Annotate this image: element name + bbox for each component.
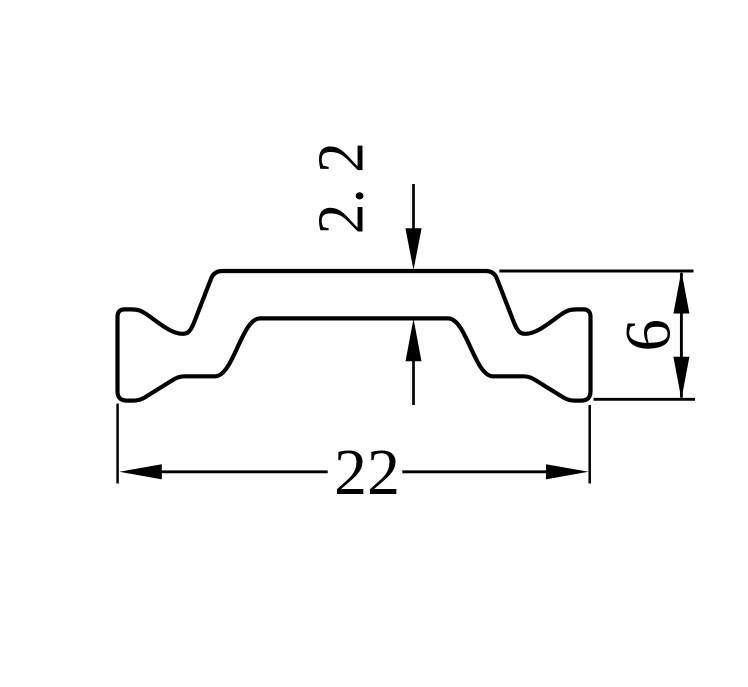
dimension 2.2: upper leader line xyxy=(412,184,415,235)
dimension 22: left arrowhead xyxy=(119,464,162,479)
dimension 6: vertical dimension line xyxy=(680,273,683,398)
svg-text:2. 2: 2. 2 xyxy=(305,142,378,234)
dimension 22: left dimension line segment xyxy=(160,470,328,473)
dimension 6: bottom arrowhead xyxy=(673,357,689,400)
dimension 6: bottom extension line xyxy=(594,398,696,401)
profile outline (extrusion cross-section) xyxy=(118,271,591,401)
dimension 6: top extension line xyxy=(499,270,693,273)
dimension 2.2: lower leader line xyxy=(412,355,415,405)
dimension 22: left extension line xyxy=(116,404,119,484)
dimension 2.2: up arrowhead xyxy=(406,319,422,362)
dimension 22: right dimension line segment xyxy=(402,470,547,473)
svg-text:6: 6 xyxy=(613,319,685,352)
dimension 22: right arrowhead xyxy=(546,464,589,479)
svg-text:22: 22 xyxy=(334,436,400,509)
dimension 6: top arrowhead xyxy=(673,271,689,314)
dimension 2.2: down arrowhead xyxy=(405,228,421,270)
dimension 22: right extension line xyxy=(588,405,591,484)
